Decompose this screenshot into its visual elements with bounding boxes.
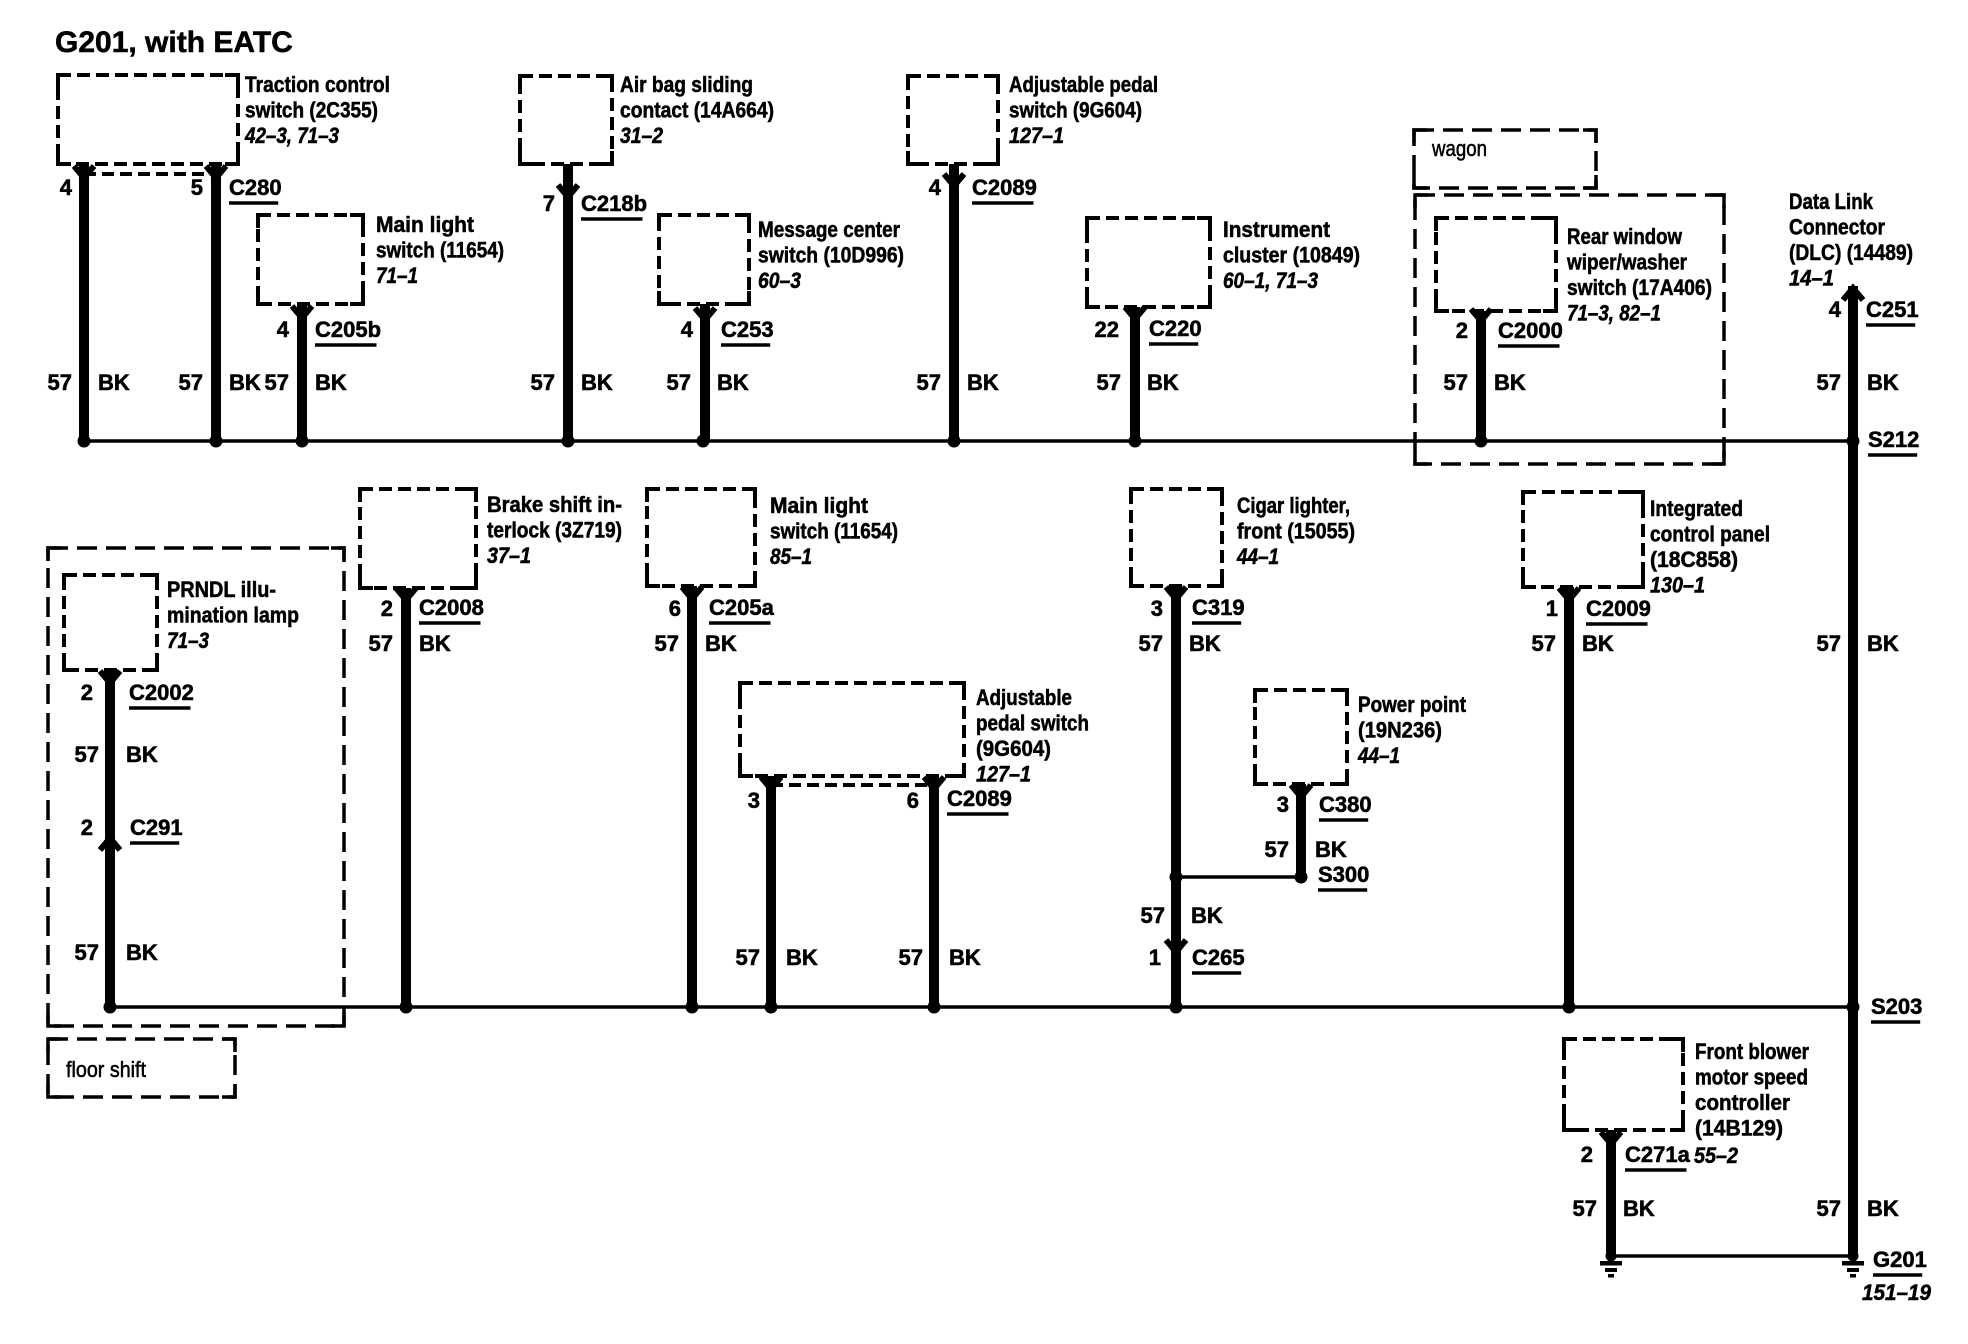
svg-text:switch (2C355): switch (2C355) (245, 98, 378, 123)
svg-text:BK: BK (1623, 1196, 1655, 1221)
svg-text:(19N236): (19N236) (1358, 718, 1442, 743)
svg-text:Instrument: Instrument (1223, 217, 1331, 242)
svg-text:BK: BK (419, 631, 451, 656)
svg-text:57: 57 (369, 631, 393, 656)
svg-text:Cigar lighter,: Cigar lighter, (1237, 493, 1350, 518)
svg-text:Integrated: Integrated (1650, 496, 1743, 521)
svg-text:85–1: 85–1 (770, 544, 812, 569)
svg-text:Adjustable: Adjustable (976, 685, 1072, 710)
svg-text:C205a: C205a (709, 595, 775, 620)
svg-text:6: 6 (669, 596, 681, 621)
svg-text:switch (17A406): switch (17A406) (1567, 275, 1712, 300)
svg-text:front (15055): front (15055) (1237, 519, 1355, 544)
svg-text:C271a: C271a (1625, 1142, 1691, 1167)
svg-text:Front blower: Front blower (1695, 1039, 1809, 1064)
svg-text:S300: S300 (1318, 862, 1369, 887)
svg-text:cluster (10849): cluster (10849) (1223, 243, 1360, 268)
svg-text:2: 2 (81, 815, 93, 840)
svg-text:Power point: Power point (1358, 692, 1467, 717)
svg-text:BK: BK (1189, 631, 1221, 656)
svg-text:2: 2 (81, 680, 93, 705)
svg-text:C280: C280 (229, 175, 282, 200)
svg-text:switch (10D996): switch (10D996) (758, 243, 904, 268)
svg-text:BK: BK (1867, 631, 1899, 656)
svg-text:57: 57 (899, 945, 923, 970)
svg-text:57: 57 (1097, 370, 1121, 395)
svg-text:71–3, 82–1: 71–3, 82–1 (1567, 301, 1661, 326)
svg-text:Main light: Main light (770, 493, 869, 518)
svg-text:14–1: 14–1 (1789, 266, 1834, 291)
svg-text:switch (9G604): switch (9G604) (1009, 98, 1142, 123)
svg-text:C220: C220 (1149, 316, 1202, 341)
svg-text:BK: BK (315, 370, 347, 395)
svg-text:(14B129): (14B129) (1695, 1116, 1783, 1141)
svg-text:1: 1 (1546, 596, 1558, 621)
svg-text:C205b: C205b (315, 317, 381, 342)
svg-text:3: 3 (1277, 792, 1289, 817)
svg-text:BK: BK (1867, 1196, 1899, 1221)
svg-text:wiper/washer: wiper/washer (1566, 250, 1687, 275)
svg-text:BK: BK (1315, 837, 1347, 862)
svg-text:57: 57 (917, 370, 941, 395)
svg-text:4: 4 (929, 175, 942, 200)
svg-text:60–3: 60–3 (758, 268, 801, 293)
svg-text:57: 57 (75, 940, 99, 965)
svg-text:G201, with EATC: G201, with EATC (55, 26, 293, 59)
svg-text:C319: C319 (1192, 595, 1245, 620)
svg-text:2: 2 (1456, 318, 1468, 343)
svg-text:(DLC) (14489): (DLC) (14489) (1789, 240, 1913, 265)
svg-text:floor shift: floor shift (66, 1057, 146, 1082)
svg-text:BK: BK (717, 370, 749, 395)
svg-text:BK: BK (126, 742, 158, 767)
svg-text:BK: BK (126, 940, 158, 965)
svg-text:127–1: 127–1 (976, 762, 1031, 787)
svg-text:55–2: 55–2 (1694, 1143, 1739, 1168)
svg-text:C2089: C2089 (972, 175, 1037, 200)
svg-text:BK: BK (1191, 903, 1223, 928)
svg-text:C265: C265 (1192, 945, 1245, 970)
svg-text:57: 57 (1817, 1196, 1841, 1221)
svg-text:57: 57 (75, 742, 99, 767)
svg-text:Data Link: Data Link (1789, 189, 1874, 214)
svg-text:terlock (3Z719): terlock (3Z719) (487, 518, 622, 543)
svg-text:127–1: 127–1 (1009, 123, 1064, 148)
svg-text:C2002: C2002 (129, 680, 194, 705)
svg-text:S203: S203 (1871, 994, 1922, 1019)
svg-text:22: 22 (1095, 317, 1119, 342)
svg-text:57: 57 (1817, 631, 1841, 656)
svg-text:57: 57 (655, 631, 679, 656)
svg-text:Message center: Message center (758, 217, 900, 242)
svg-text:C251: C251 (1866, 297, 1919, 322)
svg-text:BK: BK (581, 370, 613, 395)
svg-text:2: 2 (381, 596, 393, 621)
svg-text:C2000: C2000 (1498, 318, 1563, 343)
svg-text:C291: C291 (130, 815, 183, 840)
svg-text:57: 57 (1265, 837, 1289, 862)
svg-text:4: 4 (1829, 297, 1842, 322)
svg-text:switch (11654): switch (11654) (770, 519, 898, 544)
svg-text:Connector: Connector (1789, 215, 1885, 240)
svg-text:31–2: 31–2 (620, 123, 664, 148)
svg-text:Adjustable pedal: Adjustable pedal (1009, 72, 1158, 97)
svg-text:pedal switch: pedal switch (976, 711, 1089, 736)
svg-text:BK: BK (98, 370, 130, 395)
svg-text:4: 4 (681, 317, 694, 342)
svg-text:wagon: wagon (1431, 136, 1487, 161)
svg-text:4: 4 (60, 175, 73, 200)
svg-text:57: 57 (265, 370, 289, 395)
svg-text:4: 4 (277, 317, 290, 342)
svg-text:44–1: 44–1 (1236, 544, 1279, 569)
svg-text:57: 57 (1141, 903, 1165, 928)
svg-text:37–1: 37–1 (487, 543, 531, 568)
svg-text:BK: BK (949, 945, 981, 970)
svg-text:151–19: 151–19 (1862, 1280, 1932, 1305)
svg-text:42–3, 71–3: 42–3, 71–3 (244, 123, 339, 148)
svg-text:PRNDL illu-: PRNDL illu- (167, 577, 276, 602)
svg-text:controller: controller (1695, 1090, 1790, 1115)
svg-text:7: 7 (543, 191, 555, 216)
svg-text:Rear window: Rear window (1567, 224, 1683, 249)
svg-text:57: 57 (531, 370, 555, 395)
svg-text:57: 57 (1573, 1196, 1597, 1221)
svg-text:71–1: 71–1 (376, 263, 418, 288)
svg-text:3: 3 (748, 788, 760, 813)
svg-text:switch (11654): switch (11654) (376, 238, 504, 263)
svg-text:C218b: C218b (581, 191, 647, 216)
svg-text:C2008: C2008 (419, 595, 484, 620)
svg-text:57: 57 (1139, 631, 1163, 656)
svg-text:Brake shift in-: Brake shift in- (487, 492, 622, 517)
svg-text:57: 57 (48, 370, 72, 395)
svg-text:BK: BK (967, 370, 999, 395)
svg-text:G201: G201 (1873, 1247, 1927, 1272)
svg-text:C253: C253 (721, 317, 774, 342)
svg-text:control panel: control panel (1650, 522, 1770, 547)
svg-text:C2089: C2089 (947, 786, 1012, 811)
svg-text:motor speed: motor speed (1695, 1065, 1808, 1090)
svg-text:3: 3 (1151, 596, 1163, 621)
svg-text:(18C858): (18C858) (1650, 547, 1738, 572)
svg-text:BK: BK (1582, 631, 1614, 656)
svg-text:BK: BK (705, 631, 737, 656)
svg-text:Air bag sliding: Air bag sliding (620, 72, 753, 97)
svg-text:(9G604): (9G604) (976, 736, 1051, 761)
svg-text:71–3: 71–3 (167, 628, 209, 653)
svg-text:5: 5 (191, 175, 203, 200)
svg-text:57: 57 (179, 370, 203, 395)
svg-text:57: 57 (1532, 631, 1556, 656)
svg-text:C380: C380 (1319, 792, 1372, 817)
svg-text:6: 6 (907, 788, 919, 813)
svg-text:130–1: 130–1 (1650, 573, 1705, 598)
svg-text:2: 2 (1581, 1142, 1593, 1167)
svg-text:BK: BK (229, 370, 261, 395)
svg-text:44–1: 44–1 (1357, 743, 1400, 768)
svg-text:BK: BK (1867, 370, 1899, 395)
svg-text:57: 57 (1444, 370, 1468, 395)
svg-text:60–1, 71–3: 60–1, 71–3 (1223, 268, 1318, 293)
svg-text:BK: BK (786, 945, 818, 970)
svg-text:57: 57 (667, 370, 691, 395)
svg-text:57: 57 (736, 945, 760, 970)
svg-text:Main light: Main light (376, 212, 475, 237)
svg-text:S212: S212 (1868, 427, 1919, 452)
svg-text:1: 1 (1149, 945, 1161, 970)
svg-text:contact (14A664): contact (14A664) (620, 98, 774, 123)
svg-text:BK: BK (1147, 370, 1179, 395)
svg-text:mination lamp: mination lamp (167, 603, 299, 628)
svg-text:Traction control: Traction control (245, 72, 390, 97)
svg-text:57: 57 (1817, 370, 1841, 395)
svg-text:C2009: C2009 (1586, 596, 1651, 621)
svg-text:BK: BK (1494, 370, 1526, 395)
